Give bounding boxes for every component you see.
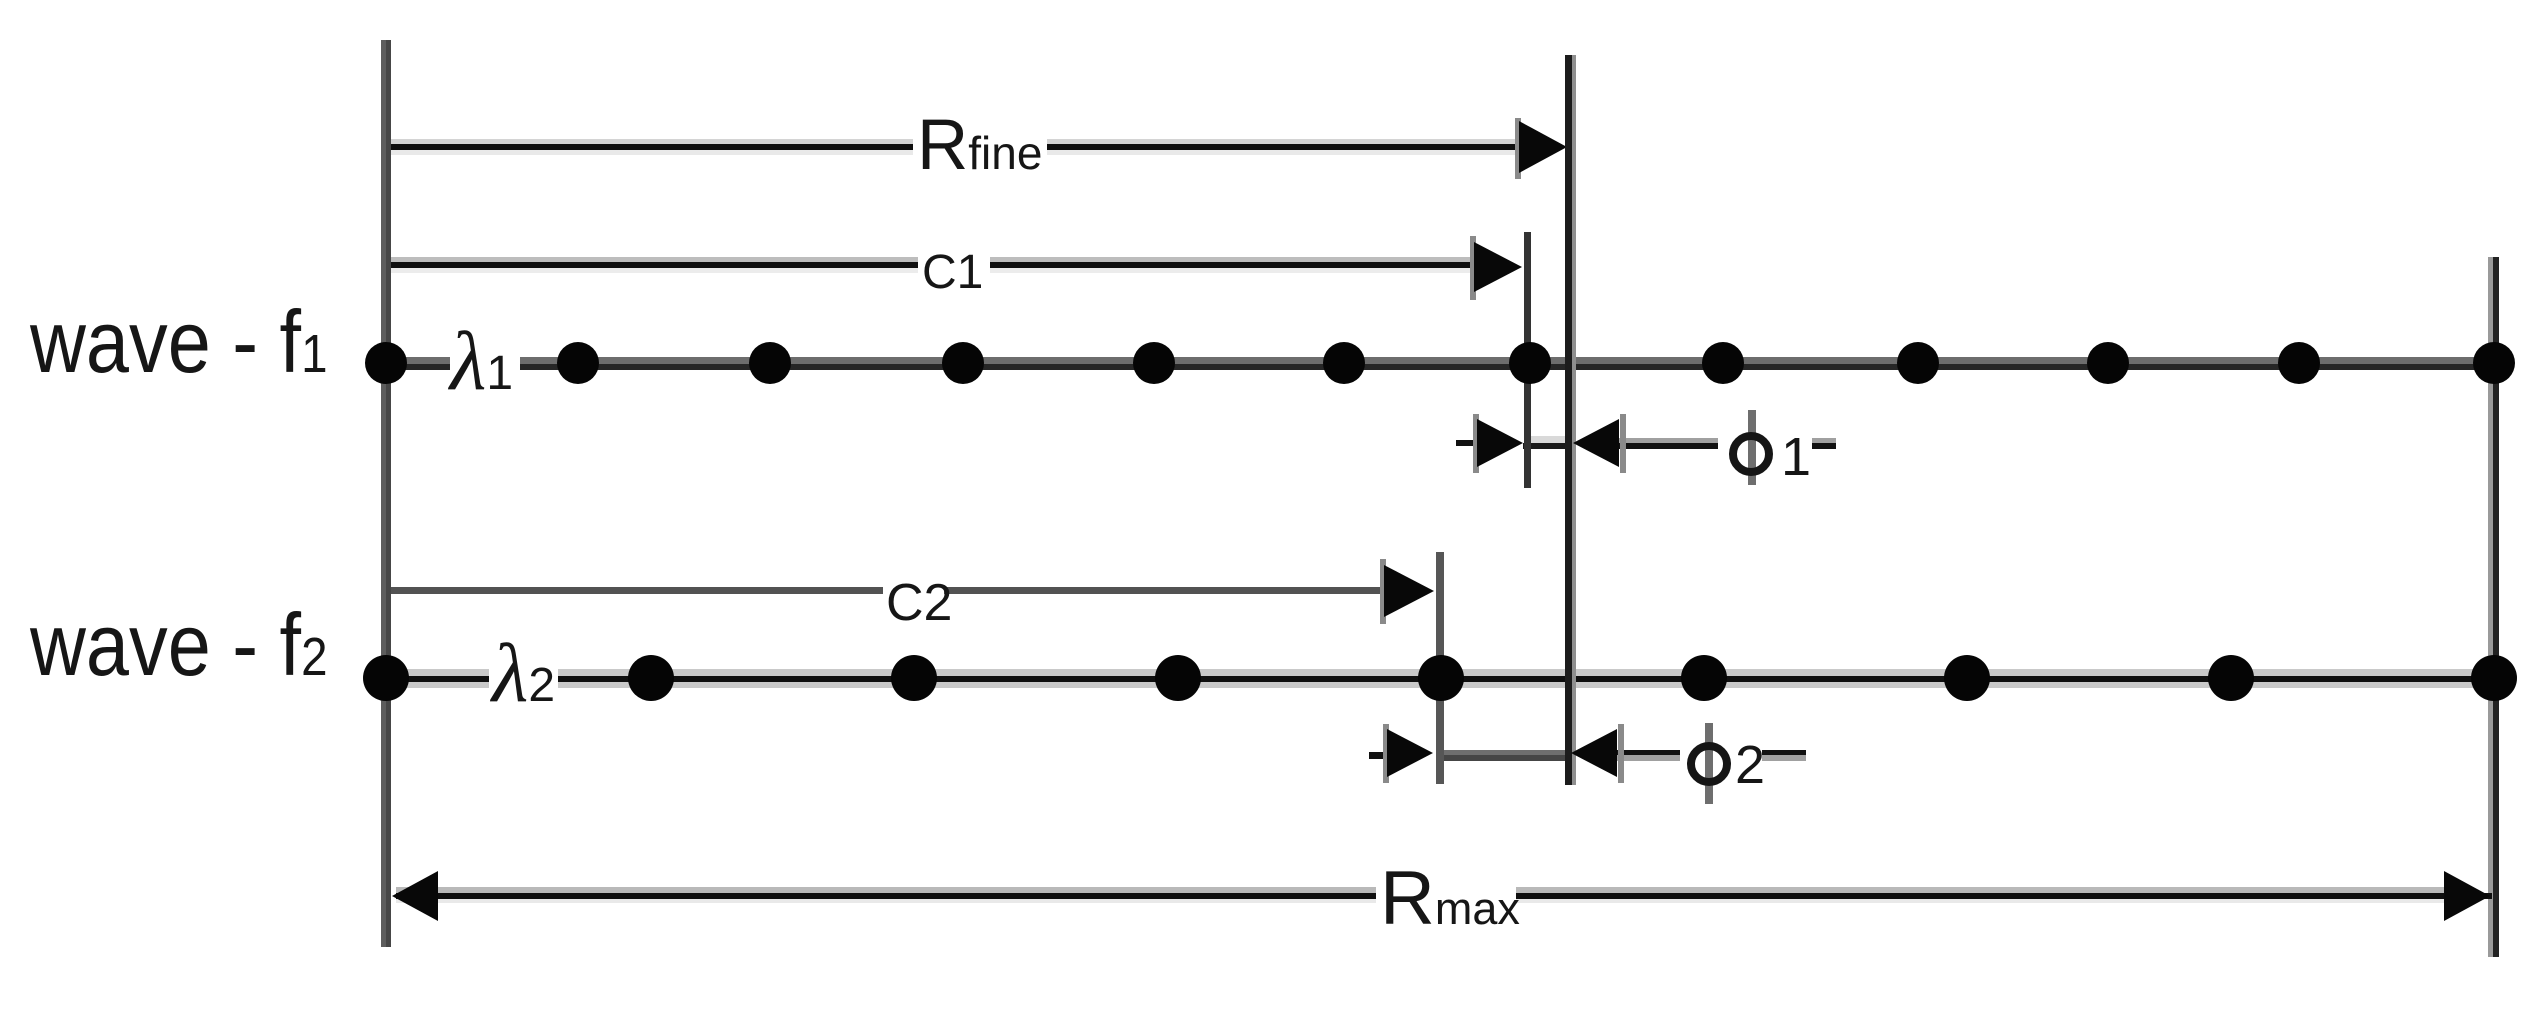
- svg-text:C2: C2: [886, 574, 952, 632]
- wire phi2 right tail: [1617, 750, 1806, 761]
- label Rmax: [1376, 856, 1520, 941]
- wire wave-f2 line: [385, 669, 2495, 688]
- wire C2 end tick: [1436, 552, 1444, 784]
- wire phi1 left tail: [1456, 440, 1480, 446]
- wire Rfine dimension line: [391, 139, 1522, 155]
- svg-text:C1: C1: [922, 246, 983, 299]
- wire right boundary vertical line (Rmax end): [2488, 257, 2499, 957]
- label phi1: [1718, 410, 1812, 487]
- wire phi1 connector line between C1 tick and Rfine line: [1523, 436, 1573, 449]
- label wave-f1: [29, 292, 327, 391]
- arrowhead Rmax right: [2444, 871, 2490, 921]
- label lambda1: [447, 315, 520, 408]
- arrowhead Rmax left: [392, 871, 438, 921]
- wire C1 end tick: [1524, 232, 1531, 488]
- wire Rfine vertical marker line: [1565, 55, 1576, 785]
- arrowhead Rfine: [1515, 118, 1567, 179]
- label C1: [918, 244, 990, 299]
- node dots wave-f1: [365, 342, 2515, 384]
- wire C1 dimension line: [391, 257, 1476, 273]
- svg-text:wave - f2: wave - f2: [29, 595, 327, 694]
- label phi2: [1680, 723, 1765, 804]
- wire phi2 left tail: [1369, 752, 1390, 759]
- arrowhead phi1 right: [1573, 414, 1626, 473]
- wire C2 dimension line: [391, 587, 1386, 594]
- wire phi1 right tail: [1619, 438, 1836, 449]
- arrowhead C1: [1470, 236, 1522, 300]
- arrowhead phi1 left: [1473, 414, 1523, 473]
- node dots wave-f2: [363, 655, 2517, 701]
- svg-text:1: 1: [1781, 427, 1811, 487]
- wire Rmax dimension line: [396, 887, 2492, 903]
- arrowhead phi2 right: [1571, 724, 1624, 783]
- label Rfine: [913, 106, 1047, 185]
- wire wave-f1 line: [385, 357, 2495, 370]
- label C2: [883, 574, 952, 632]
- arrowhead phi2 left: [1383, 724, 1433, 783]
- arrowhead C2: [1380, 559, 1434, 624]
- svg-text:wave - f1: wave - f1: [29, 292, 327, 391]
- svg-text:2: 2: [1735, 735, 1765, 795]
- label wave-f2: [29, 595, 327, 694]
- label lambda2: [489, 627, 558, 720]
- wire phi2 connector line between C2 tick and Rfine line: [1440, 750, 1570, 761]
- wire left boundary vertical line: [381, 40, 391, 947]
